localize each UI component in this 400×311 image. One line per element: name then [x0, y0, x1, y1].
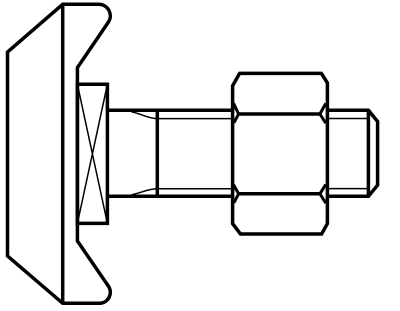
threaded tip chamfer edge: [367, 110, 371, 196]
hex nut outline: [233, 73, 328, 234]
threaded tip root line top: [328, 118, 368, 120]
square neck diagonal cross: [77, 84, 107, 223]
hex nut chamfer notch left bottom: [234, 185, 239, 203]
hex nut upper facet line: [239, 112, 320, 116]
threaded tip outline: [328, 110, 378, 196]
thread root line top: [132, 112, 233, 119]
shank top line: [107, 109, 232, 113]
threaded tip root line bottom: [328, 188, 368, 190]
thread root line bottom: [132, 189, 233, 195]
bolt head face divider: [61, 4, 65, 303]
bolt head outline: [8, 4, 111, 303]
hex nut chamfer notch left top: [234, 103, 239, 123]
square neck block: [77, 84, 107, 223]
shank bottom line: [107, 195, 232, 199]
hex nut chamfer notch right bottom: [320, 184, 326, 203]
hex nut chamfer notch right top: [320, 103, 326, 123]
thread start vertical: [156, 110, 160, 196]
hex nut lower facet line: [239, 192, 320, 196]
